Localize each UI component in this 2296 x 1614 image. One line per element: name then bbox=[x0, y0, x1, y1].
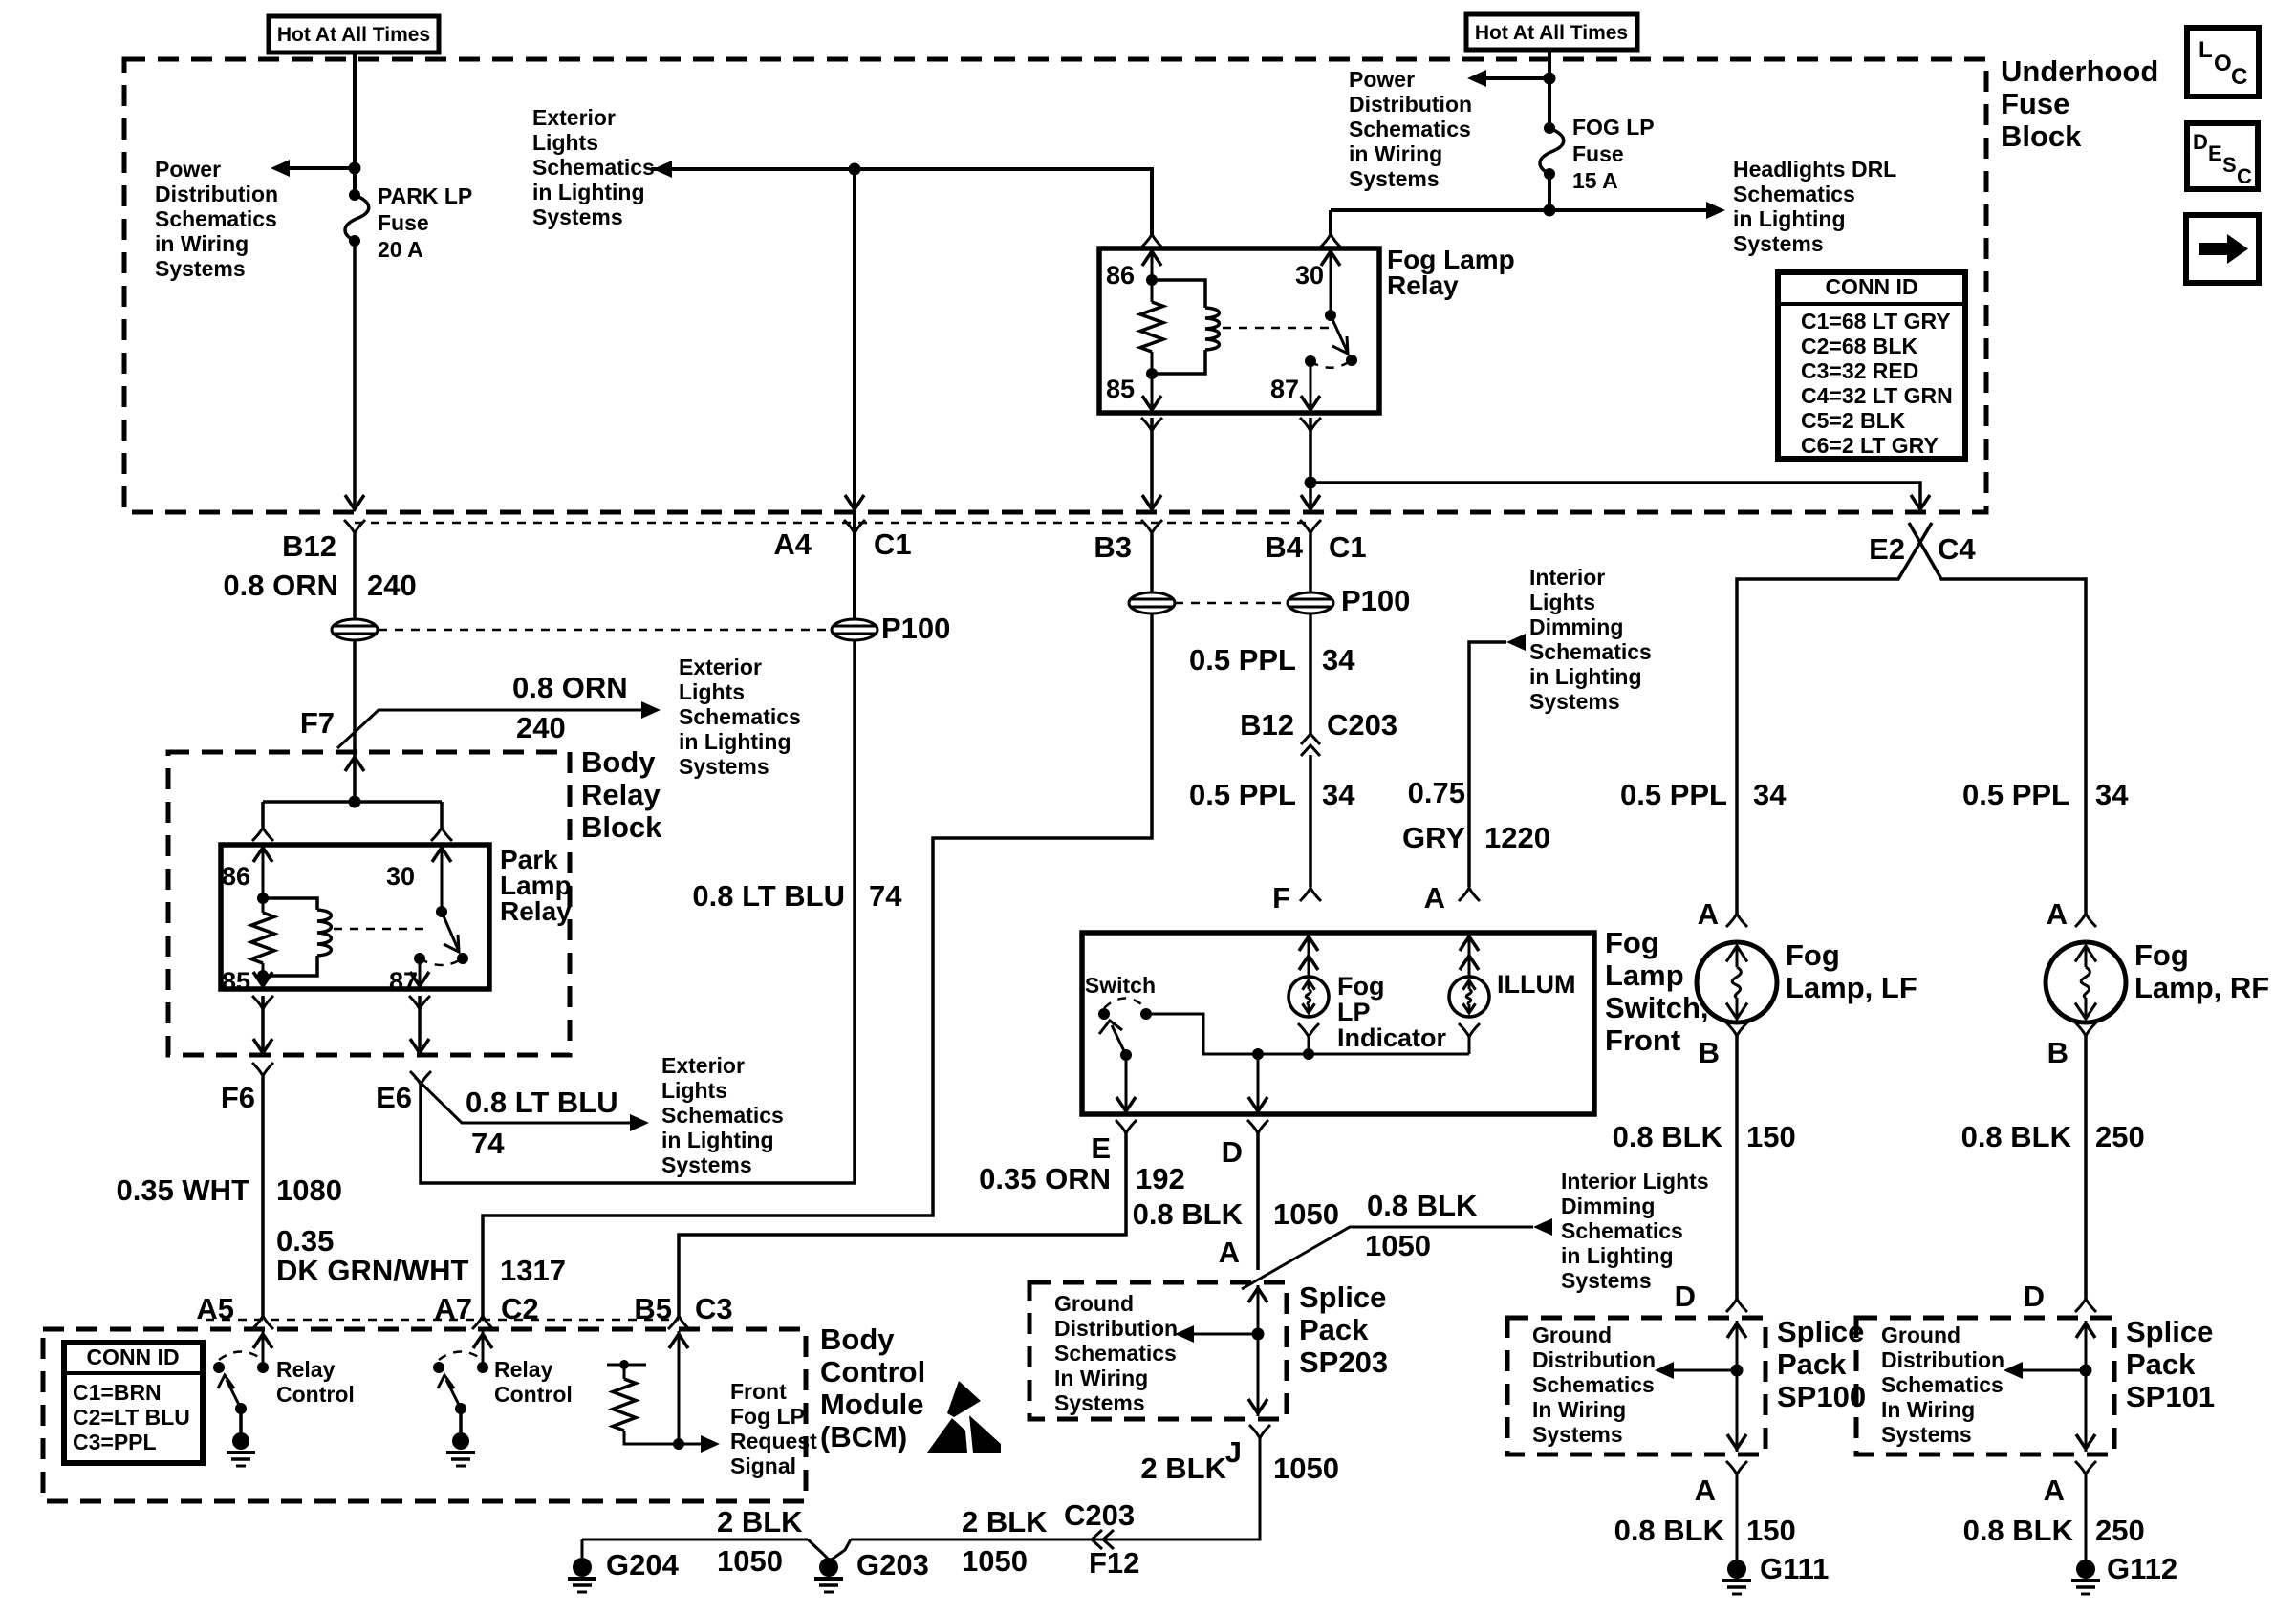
svg-text:34: 34 bbox=[1753, 778, 1787, 811]
svg-text:Request: Request bbox=[730, 1429, 817, 1453]
branch arrow to Power Distribution Schematics (middle) bbox=[1484, 76, 1549, 80]
svg-text:1220: 1220 bbox=[1484, 821, 1550, 854]
svg-text:D: D bbox=[2024, 1280, 2045, 1313]
svg-text:Ground: Ground bbox=[1054, 1291, 1134, 1316]
LOC nav icon bbox=[2187, 28, 2259, 97]
Hot At All Times callout (right) bbox=[1466, 14, 1637, 50]
Body Relay Block dashed enclosure bbox=[168, 752, 570, 1055]
Hot At All Times callout (left) bbox=[269, 16, 439, 53]
wire 0.8 ORN 240 from P100 to F7 bbox=[353, 640, 357, 726]
svg-text:Hot At All Times: Hot At All Times bbox=[277, 24, 430, 46]
svg-text:D: D bbox=[2193, 130, 2208, 154]
svg-text:Module: Module bbox=[820, 1388, 924, 1421]
svg-text:Systems: Systems bbox=[155, 256, 246, 281]
svg-text:A: A bbox=[1695, 1474, 1716, 1507]
svg-text:Signal: Signal bbox=[730, 1453, 796, 1478]
svg-text:150: 150 bbox=[1746, 1514, 1796, 1547]
lamp ILLUM bbox=[1468, 935, 1471, 977]
svg-text:Body: Body bbox=[820, 1323, 895, 1356]
wire from FOG LP fuse to distribution node bbox=[1548, 174, 1551, 210]
CONN ID table (BCM) bbox=[64, 1343, 203, 1463]
svg-text:Lamp: Lamp bbox=[1605, 958, 1684, 992]
svg-text:C1=BRN: C1=BRN bbox=[73, 1380, 162, 1405]
wire SP101 to G112 bbox=[2075, 1461, 2096, 1474]
svg-text:Fuse: Fuse bbox=[2001, 87, 2069, 120]
svg-text:A5: A5 bbox=[196, 1292, 234, 1325]
svg-text:Hot At All Times: Hot At All Times bbox=[1475, 22, 1628, 44]
svg-text:Relay: Relay bbox=[581, 778, 661, 811]
splice split E2 / C4 bbox=[1737, 523, 1932, 914]
wire 0.5 PPL 34 down to C203 bbox=[1309, 613, 1312, 736]
svg-text:Systems: Systems bbox=[1733, 231, 1824, 256]
Splice Pack SP100 dashed box bbox=[1507, 1318, 1765, 1454]
svg-text:74: 74 bbox=[471, 1127, 505, 1160]
svg-text:GRY: GRY bbox=[1402, 821, 1465, 854]
svg-text:SP203: SP203 bbox=[1299, 1345, 1388, 1379]
Body Control Module (BCM) dashed box bbox=[43, 1329, 806, 1501]
svg-text:Schematics: Schematics bbox=[1881, 1372, 2004, 1397]
svg-text:Interior: Interior bbox=[1529, 565, 1605, 590]
Splice Pack SP101 dashed box bbox=[1856, 1318, 2114, 1454]
svg-text:B4: B4 bbox=[1265, 530, 1303, 564]
svg-text:L: L bbox=[2199, 37, 2213, 63]
svg-text:Systems: Systems bbox=[1054, 1390, 1145, 1415]
svg-text:In Wiring: In Wiring bbox=[1532, 1397, 1626, 1422]
svg-text:Fuse: Fuse bbox=[1572, 141, 1624, 166]
svg-text:Pack: Pack bbox=[1777, 1347, 1847, 1381]
connector P100 (A4) bbox=[844, 520, 865, 533]
svg-text:F: F bbox=[1272, 881, 1290, 915]
lamp Fog Lamp, RF bbox=[2046, 942, 2126, 1022]
svg-text:Fog: Fog bbox=[2134, 938, 2189, 972]
svg-text:FOG LP: FOG LP bbox=[1572, 115, 1655, 140]
svg-text:Dimming: Dimming bbox=[1529, 614, 1623, 639]
DESC nav icon bbox=[2187, 123, 2258, 189]
connector P100 (B4) bbox=[1309, 533, 1312, 592]
svg-text:C3: C3 bbox=[695, 1292, 733, 1325]
svg-text:Schematics: Schematics bbox=[1054, 1341, 1177, 1366]
svg-text:Front: Front bbox=[1605, 1023, 1680, 1057]
svg-text:Control: Control bbox=[494, 1382, 573, 1407]
relay Park Lamp Relay box bbox=[221, 845, 489, 989]
svg-text:34: 34 bbox=[1322, 643, 1355, 677]
svg-text:Fog: Fog bbox=[1337, 972, 1384, 1001]
svg-text:CONN ID: CONN ID bbox=[1825, 274, 1917, 299]
svg-text:A: A bbox=[2044, 1474, 2065, 1507]
svg-text:LP: LP bbox=[1337, 998, 1371, 1026]
BCM front fog lamp request input (B5/C3) bbox=[678, 1331, 681, 1444]
park relay pin 30 switch bbox=[441, 847, 444, 912]
svg-text:Pack: Pack bbox=[1299, 1313, 1369, 1346]
svg-text:E: E bbox=[1091, 1131, 1111, 1165]
svg-text:0.75: 0.75 bbox=[1408, 776, 1465, 809]
wire 0.35 ORN 192 from switch E to BCM C3 bbox=[1116, 1120, 1137, 1133]
svg-text:Headlights DRL: Headlights DRL bbox=[1733, 157, 1896, 182]
svg-text:D: D bbox=[1675, 1280, 1696, 1313]
svg-text:0.5 PPL: 0.5 PPL bbox=[1189, 778, 1296, 811]
svg-text:Indicator: Indicator bbox=[1337, 1023, 1447, 1052]
svg-text:G111: G111 bbox=[1760, 1552, 1829, 1585]
svg-text:1050: 1050 bbox=[1273, 1197, 1339, 1231]
ground G203 bbox=[819, 1558, 838, 1577]
svg-text:C2=68 BLK: C2=68 BLK bbox=[1801, 334, 1917, 358]
svg-text:0.8 BLK: 0.8 BLK bbox=[1961, 1120, 2072, 1153]
svg-text:Schematics: Schematics bbox=[1561, 1218, 1683, 1243]
svg-text:Front: Front bbox=[730, 1379, 787, 1404]
svg-text:87: 87 bbox=[389, 967, 418, 996]
svg-text:86: 86 bbox=[222, 862, 250, 891]
svg-text:1050: 1050 bbox=[1365, 1229, 1431, 1262]
wire 0.8 BLK 1050 from switch D to splice pack bbox=[1247, 1120, 1268, 1133]
ground G111 bbox=[1727, 1560, 1746, 1579]
svg-text:in Lighting: in Lighting bbox=[679, 729, 791, 754]
wire FOG LP feed to Headlights DRL arrow bbox=[1331, 208, 1708, 212]
svg-text:86: 86 bbox=[1106, 261, 1135, 290]
svg-text:E: E bbox=[2208, 141, 2222, 165]
svg-text:0.5 PPL: 0.5 PPL bbox=[1962, 778, 2069, 811]
ground G112 bbox=[2076, 1560, 2095, 1579]
svg-text:Systems: Systems bbox=[532, 204, 623, 229]
svg-text:Block: Block bbox=[2001, 119, 2082, 153]
svg-text:Pack: Pack bbox=[2126, 1347, 2196, 1381]
svg-text:Systems: Systems bbox=[1349, 166, 1440, 191]
svg-text:Exterior: Exterior bbox=[661, 1053, 745, 1078]
svg-text:0.8 LT BLU: 0.8 LT BLU bbox=[466, 1086, 618, 1119]
wire ILLUM dimming feed 0.75 GRY 1220 bbox=[1459, 888, 1480, 901]
svg-text:CONN ID: CONN ID bbox=[86, 1345, 179, 1369]
svg-text:Control: Control bbox=[820, 1355, 925, 1388]
svg-text:85: 85 bbox=[222, 967, 250, 996]
svg-text:Switch: Switch bbox=[1085, 973, 1156, 998]
svg-text:C2=LT BLU: C2=LT BLU bbox=[73, 1405, 190, 1430]
park relay coil bbox=[263, 898, 317, 910]
svg-text:0.5 PPL: 0.5 PPL bbox=[1620, 778, 1727, 811]
svg-text:G112: G112 bbox=[2107, 1552, 2177, 1585]
svg-text:34: 34 bbox=[2095, 778, 2129, 811]
svg-text:Lights: Lights bbox=[1529, 590, 1595, 614]
junction to E2/C4 branch bbox=[1305, 477, 1317, 489]
Fog Lamp Switch, Front box bbox=[1082, 933, 1594, 1114]
wire 0.5 PPL 34 to switch F bbox=[1309, 755, 1312, 887]
svg-text:0.8 BLK: 0.8 BLK bbox=[1133, 1197, 1244, 1231]
svg-text:Exterior: Exterior bbox=[679, 655, 762, 679]
fuse FOG LP 15 A bbox=[1544, 122, 1555, 134]
wire fog relay output to E2/C4 bbox=[1310, 483, 1920, 509]
wire exterior lights feed (C1/A4) bbox=[651, 169, 855, 619]
svg-text:Relay: Relay bbox=[276, 1357, 336, 1382]
wire park relay 87 to E6 bbox=[409, 996, 430, 1009]
svg-text:in Lighting: in Lighting bbox=[1529, 664, 1642, 689]
wire F7 into relay feed junction bbox=[353, 752, 357, 802]
svg-text:Systems: Systems bbox=[679, 754, 769, 779]
wire D output bbox=[1257, 1054, 1260, 1112]
svg-text:Schematics: Schematics bbox=[1532, 1372, 1655, 1397]
CONN ID table (Underhood Fuse Block) bbox=[1778, 272, 1965, 459]
svg-text:(BCM): (BCM) bbox=[820, 1420, 907, 1453]
svg-text:G204: G204 bbox=[606, 1548, 680, 1582]
wire SP100 to G111 bbox=[1726, 1461, 1747, 1474]
svg-text:0.8 BLK: 0.8 BLK bbox=[1963, 1514, 2074, 1547]
svg-text:Relay: Relay bbox=[1387, 270, 1459, 300]
svg-text:DK GRN/WHT: DK GRN/WHT bbox=[276, 1254, 469, 1287]
svg-text:Fog: Fog bbox=[1786, 938, 1840, 972]
wire switch fixed contact to D node bbox=[1146, 1014, 1469, 1054]
svg-text:1050: 1050 bbox=[1273, 1452, 1339, 1485]
splice SP203 internal wire bbox=[1257, 1285, 1260, 1416]
svg-text:A: A bbox=[1698, 897, 1719, 931]
svg-text:E2: E2 bbox=[1869, 532, 1905, 566]
svg-text:C6=2 LT GRY: C6=2 LT GRY bbox=[1801, 433, 1939, 458]
svg-text:Fuse: Fuse bbox=[378, 210, 429, 235]
svg-text:2 BLK: 2 BLK bbox=[717, 1505, 803, 1539]
svg-text:150: 150 bbox=[1746, 1120, 1796, 1153]
svg-text:A: A bbox=[1219, 1236, 1240, 1269]
svg-text:Fog LP: Fog LP bbox=[730, 1404, 805, 1429]
svg-text:Power: Power bbox=[1349, 67, 1415, 92]
connector P100 (B12) bbox=[332, 619, 378, 640]
svg-text:Distribution: Distribution bbox=[1054, 1316, 1178, 1341]
splice SP100 internal wire bbox=[1736, 1321, 1739, 1452]
svg-text:C3=32 RED: C3=32 RED bbox=[1801, 358, 1918, 383]
svg-text:34: 34 bbox=[1322, 778, 1355, 811]
svg-text:in Lighting: in Lighting bbox=[661, 1128, 774, 1152]
svg-text:Power: Power bbox=[155, 157, 221, 182]
connector P100 (B3) bbox=[1129, 592, 1175, 613]
svg-text:Systems: Systems bbox=[1532, 1422, 1623, 1447]
wire switch output to E bbox=[1125, 1055, 1128, 1112]
wire from PARK LP fuse down to B12 bbox=[353, 241, 357, 509]
park relay pin 85 bbox=[262, 976, 265, 987]
svg-text:0.35: 0.35 bbox=[276, 1224, 334, 1258]
svg-text:1080: 1080 bbox=[276, 1173, 342, 1207]
wire 0.8 LT BLU 74 from E6 up to P100 A4 bbox=[421, 640, 855, 1183]
svg-text:1050: 1050 bbox=[717, 1544, 783, 1578]
svg-text:240: 240 bbox=[367, 569, 417, 602]
svg-text:Schematics: Schematics bbox=[1733, 182, 1855, 206]
svg-text:SP101: SP101 bbox=[2126, 1380, 2215, 1413]
wire B3 circuit from fog relay pin 85 bbox=[1141, 418, 1162, 431]
svg-text:Lights: Lights bbox=[532, 130, 598, 155]
wire J to ground bbox=[1249, 1425, 1270, 1438]
svg-text:0.35 WHT: 0.35 WHT bbox=[116, 1173, 249, 1207]
svg-text:87: 87 bbox=[1270, 375, 1299, 403]
Underhood Fuse Block dashed enclosure bbox=[124, 59, 1986, 512]
wire from Hot At All Times to FOG LP fuse bbox=[1548, 50, 1551, 128]
svg-text:Splice: Splice bbox=[2126, 1315, 2213, 1348]
BCM relay control switch (A5) bbox=[262, 1331, 265, 1366]
svg-text:Systems: Systems bbox=[1561, 1268, 1652, 1293]
svg-text:B: B bbox=[2047, 1036, 2069, 1069]
svg-text:Splice: Splice bbox=[1777, 1315, 1864, 1348]
svg-text:A4: A4 bbox=[773, 527, 812, 561]
svg-text:Distribution: Distribution bbox=[155, 182, 278, 206]
svg-text:C4: C4 bbox=[1938, 532, 1976, 566]
wire from Hot At All Times into fuse block bbox=[353, 53, 357, 195]
svg-text:C1: C1 bbox=[874, 527, 912, 561]
svg-text:F12: F12 bbox=[1089, 1546, 1139, 1580]
svg-text:Block: Block bbox=[581, 810, 662, 844]
svg-text:192: 192 bbox=[1136, 1162, 1185, 1195]
svg-text:0.8 BLK: 0.8 BLK bbox=[1367, 1189, 1478, 1222]
svg-text:1050: 1050 bbox=[962, 1544, 1028, 1578]
svg-text:PARK LP: PARK LP bbox=[378, 183, 472, 208]
svg-text:C203: C203 bbox=[1327, 708, 1397, 742]
svg-text:0.8 BLK: 0.8 BLK bbox=[1614, 1514, 1725, 1547]
splice break E6 with branch arrow 0.8 LT BLU 74 bbox=[415, 1077, 632, 1123]
forward arrow nav icon bbox=[2186, 215, 2259, 283]
junction node at PARK LP feed bbox=[349, 162, 361, 175]
svg-text:in Lighting: in Lighting bbox=[532, 180, 645, 204]
BCM connector face dashed line bbox=[206, 1319, 679, 1322]
svg-text:B12: B12 bbox=[282, 529, 336, 563]
svg-text:Systems: Systems bbox=[1529, 689, 1620, 714]
svg-text:Underhood: Underhood bbox=[2001, 54, 2158, 88]
svg-text:In Wiring: In Wiring bbox=[1881, 1397, 1975, 1422]
svg-text:in Wiring: in Wiring bbox=[155, 231, 249, 256]
connector face dashed line (underhood bottom) bbox=[355, 522, 1310, 525]
svg-text:C4=32 LT GRN: C4=32 LT GRN bbox=[1801, 383, 1953, 408]
Splice Pack SP203 dashed box bbox=[1029, 1282, 1287, 1419]
wire exterior lights feed to fog relay pin 86 bbox=[855, 169, 1152, 234]
svg-text:in Wiring: in Wiring bbox=[1349, 141, 1442, 166]
svg-text:B: B bbox=[1699, 1036, 1720, 1069]
svg-text:2 BLK: 2 BLK bbox=[962, 1505, 1048, 1539]
svg-text:C3=PPL: C3=PPL bbox=[73, 1430, 157, 1454]
svg-text:Systems: Systems bbox=[1881, 1422, 1972, 1447]
svg-text:Body: Body bbox=[581, 745, 656, 779]
svg-text:P100: P100 bbox=[1341, 584, 1410, 617]
wire 2 BLK 1050 to G203/G204 bbox=[832, 1539, 851, 1560]
junction node to Power Distribution branch bbox=[1544, 73, 1556, 85]
splice SP101 internal wire bbox=[2085, 1321, 2088, 1452]
svg-text:ILLUM: ILLUM bbox=[1497, 970, 1575, 999]
fog relay pin 87 bbox=[1305, 355, 1316, 367]
branch arrow to Power Distribution Schematics bbox=[289, 166, 355, 170]
fuse PARK LP 20 A bbox=[349, 189, 360, 201]
lamp Fog Lamp, LF bbox=[1697, 942, 1777, 1022]
svg-text:C203: C203 bbox=[1064, 1498, 1135, 1532]
svg-text:Lamp, RF: Lamp, RF bbox=[2134, 971, 2269, 1004]
svg-text:0.8 ORN: 0.8 ORN bbox=[223, 569, 338, 602]
svg-text:Ground: Ground bbox=[1532, 1323, 1612, 1347]
svg-text:Schematics: Schematics bbox=[661, 1103, 784, 1128]
svg-text:30: 30 bbox=[1295, 261, 1324, 290]
svg-text:in Lighting: in Lighting bbox=[1733, 206, 1846, 231]
svg-text:Relay: Relay bbox=[494, 1357, 553, 1382]
svg-text:B12: B12 bbox=[1240, 708, 1294, 742]
fog relay pin 30 bbox=[1330, 250, 1332, 315]
svg-text:Switch,: Switch, bbox=[1605, 991, 1709, 1024]
svg-text:85: 85 bbox=[1106, 375, 1135, 403]
svg-text:C1=68 LT GRY: C1=68 LT GRY bbox=[1801, 309, 1951, 334]
svg-text:74: 74 bbox=[869, 879, 902, 913]
svg-text:D: D bbox=[1222, 1135, 1243, 1169]
svg-text:0.5 PPL: 0.5 PPL bbox=[1189, 643, 1296, 677]
svg-text:S: S bbox=[2222, 153, 2237, 177]
svg-text:Fog: Fog bbox=[1605, 926, 1659, 959]
svg-text:A: A bbox=[2047, 897, 2068, 931]
svg-text:P100: P100 bbox=[881, 612, 950, 645]
svg-text:C: C bbox=[2237, 164, 2252, 188]
park relay pin 87 bbox=[414, 953, 425, 964]
svg-text:Dimming: Dimming bbox=[1561, 1194, 1655, 1218]
svg-text:Lights: Lights bbox=[661, 1078, 727, 1103]
svg-text:C: C bbox=[2231, 64, 2247, 90]
svg-text:Distribution: Distribution bbox=[1349, 92, 1472, 117]
svg-text:In Wiring: In Wiring bbox=[1054, 1366, 1148, 1390]
fog relay pin 86 and coil bbox=[1151, 250, 1154, 280]
svg-text:Schematics: Schematics bbox=[1529, 639, 1652, 664]
svg-text:O: O bbox=[2214, 51, 2232, 76]
svg-text:Ground: Ground bbox=[1881, 1323, 1960, 1347]
svg-text:Splice: Splice bbox=[1299, 1280, 1386, 1314]
svg-text:240: 240 bbox=[516, 711, 566, 744]
svg-text:2 BLK: 2 BLK bbox=[1140, 1452, 1226, 1485]
svg-text:0.8 LT BLU: 0.8 LT BLU bbox=[692, 879, 845, 913]
svg-text:C5=2 BLK: C5=2 BLK bbox=[1801, 408, 1906, 433]
lamp Fog LP Indicator bbox=[1308, 935, 1310, 977]
svg-text:Lamp, LF: Lamp, LF bbox=[1786, 971, 1917, 1004]
park relay pin 86 and coil bbox=[262, 847, 265, 898]
svg-text:Relay: Relay bbox=[500, 896, 572, 926]
fog relay switch contact bbox=[1325, 310, 1336, 321]
svg-text:Exterior: Exterior bbox=[532, 105, 616, 130]
svg-text:in Lighting: in Lighting bbox=[1561, 1243, 1674, 1268]
ground G204 bbox=[573, 1558, 592, 1577]
svg-text:Schematics: Schematics bbox=[1349, 117, 1471, 141]
fog relay coil bbox=[1152, 280, 1205, 308]
svg-text:250: 250 bbox=[2095, 1514, 2145, 1547]
wire B4 circuit from fog relay pin 87 bbox=[1300, 418, 1321, 431]
svg-text:F7: F7 bbox=[300, 706, 335, 740]
BCM relay control switch (A7) bbox=[482, 1331, 485, 1366]
svg-text:Control: Control bbox=[276, 1382, 355, 1407]
svg-text:Distribution: Distribution bbox=[1532, 1347, 1656, 1372]
svg-text:Lights: Lights bbox=[679, 679, 745, 704]
svg-text:0.35 ORN: 0.35 ORN bbox=[979, 1162, 1111, 1195]
svg-text:250: 250 bbox=[2095, 1120, 2145, 1153]
fog relay pin 85 bbox=[1151, 374, 1154, 411]
svg-text:A: A bbox=[1424, 881, 1445, 915]
svg-text:F6: F6 bbox=[221, 1081, 255, 1114]
svg-text:Distribution: Distribution bbox=[1881, 1347, 2004, 1372]
svg-text:SP100: SP100 bbox=[1777, 1380, 1866, 1413]
connector B12 bbox=[344, 520, 365, 533]
svg-text:G203: G203 bbox=[856, 1548, 929, 1582]
svg-text:1317: 1317 bbox=[500, 1254, 566, 1287]
svg-text:0.8 ORN: 0.8 ORN bbox=[512, 671, 628, 704]
svg-text:Schematics: Schematics bbox=[679, 704, 801, 729]
svg-text:Systems: Systems bbox=[661, 1152, 752, 1177]
relay Fog Lamp Relay box bbox=[1099, 248, 1379, 413]
svg-text:J: J bbox=[1225, 1435, 1242, 1469]
svg-text:15 A: 15 A bbox=[1572, 168, 1618, 193]
wire down to fog lamp relay pin 30 bbox=[1329, 210, 1332, 234]
svg-text:C1: C1 bbox=[1329, 530, 1367, 564]
svg-text:Interior Lights: Interior Lights bbox=[1561, 1169, 1709, 1194]
svg-text:30: 30 bbox=[386, 862, 415, 891]
svg-text:0.8 BLK: 0.8 BLK bbox=[1613, 1120, 1723, 1153]
svg-text:Schematics: Schematics bbox=[155, 206, 277, 231]
svg-text:E6: E6 bbox=[376, 1081, 412, 1114]
svg-text:20 A: 20 A bbox=[378, 237, 423, 262]
svg-text:Schematics: Schematics bbox=[532, 155, 655, 180]
wire park relay 85 to F6 bbox=[252, 996, 273, 1009]
ESD symbol bbox=[947, 1381, 981, 1417]
svg-text:B3: B3 bbox=[1094, 530, 1132, 564]
